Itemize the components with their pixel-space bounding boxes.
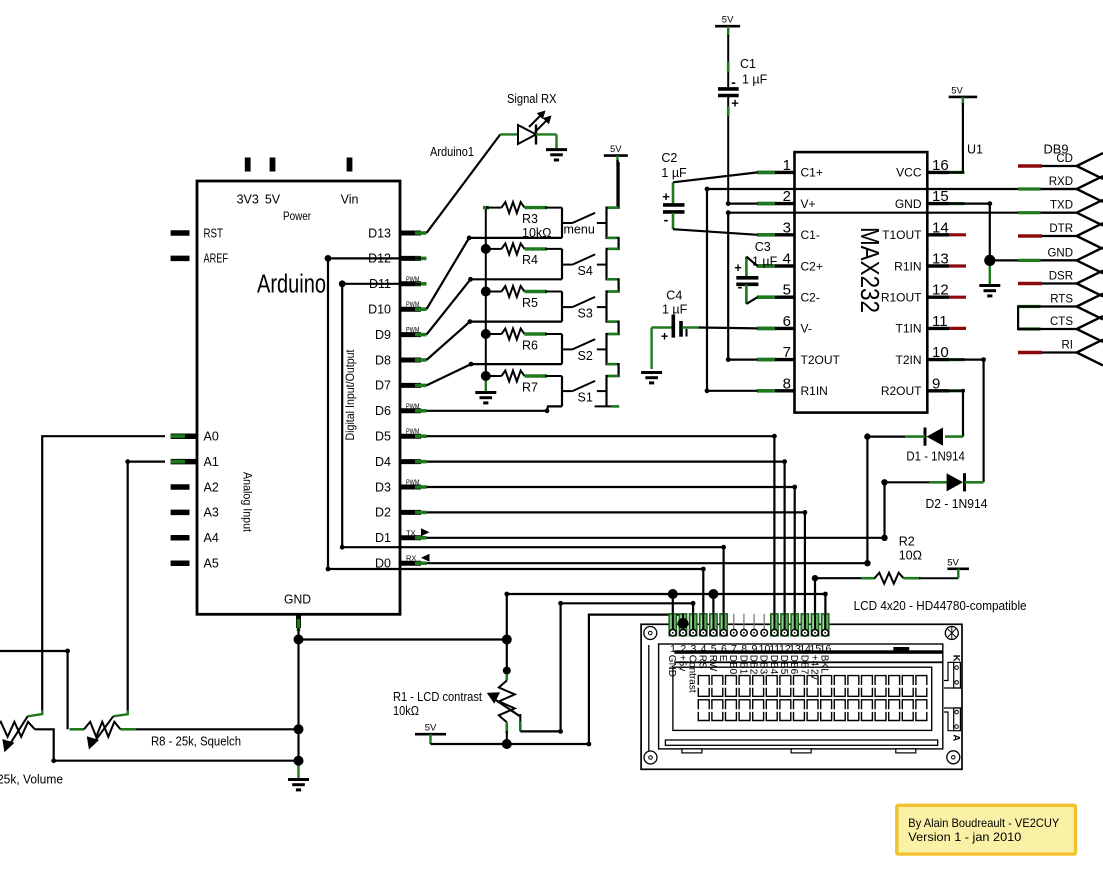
svg-text:A4: A4 <box>204 531 219 545</box>
svg-text:AREF: AREF <box>204 252 229 266</box>
svg-text:5V: 5V <box>610 144 622 155</box>
svg-text:Power: Power <box>283 209 311 223</box>
wire D10 to R3/menu node <box>427 238 563 309</box>
wire down to LCD pin5 <box>712 594 714 627</box>
MAX232 pin 4 C2+ <box>757 264 795 267</box>
wire R1 top to LCD GND line <box>506 594 508 676</box>
svg-text:V-: V- <box>801 322 812 336</box>
svg-text:-: - <box>664 212 669 228</box>
svg-text:13: 13 <box>932 251 949 268</box>
pin D12 green tip <box>415 257 427 261</box>
5V supply symbol for C1 <box>715 15 740 36</box>
DB9 pin GND <box>1041 248 1103 274</box>
svg-text:CD: CD <box>1056 153 1073 165</box>
MAX232 pin 15 GND <box>927 202 949 205</box>
svg-text:Signal RX: Signal RX <box>507 92 557 106</box>
svg-text:5V: 5V <box>947 557 959 568</box>
pin D11 green tip <box>415 282 427 286</box>
MAX232 pin 1 C1+ <box>757 171 795 174</box>
svg-text:T1IN: T1IN <box>895 322 921 336</box>
switch S2 <box>562 339 607 349</box>
wire volume pot right to GND bus <box>35 729 299 760</box>
wire GND line to LCD pins 1,5,16 <box>507 594 826 627</box>
svg-text:1 µF: 1 µF <box>742 73 768 87</box>
MAX232 pin 7 T2OUT <box>757 358 795 361</box>
svg-text:8: 8 <box>741 643 747 655</box>
MAX232 pin 10 T2IN <box>927 358 949 361</box>
svg-text:GND: GND <box>666 655 677 677</box>
wire 5V rail (zig-zag bus feeding switches) <box>616 160 618 208</box>
pin A0 green tip <box>171 434 185 438</box>
svg-text:16: 16 <box>820 643 832 655</box>
green stem to ground <box>485 376 487 393</box>
svg-text:DB6: DB6 <box>788 655 799 675</box>
pin D0 green tip <box>415 561 427 565</box>
LCD pin 5 RW header <box>710 614 717 636</box>
svg-text:+: + <box>731 96 739 111</box>
wire R6 right side U-path <box>561 334 563 364</box>
pin A1 green tip <box>171 460 185 464</box>
junction on LCD pin2 <box>678 618 689 629</box>
svg-text:DB3: DB3 <box>758 655 769 675</box>
svg-text:11: 11 <box>932 313 948 330</box>
Arduino pin D1 stub <box>400 535 421 540</box>
junction GND wire <box>294 635 304 645</box>
wires into LCD headers <box>672 614 674 630</box>
capacitor C3 1uF <box>734 257 758 304</box>
svg-text:S1: S1 <box>578 391 593 405</box>
Arduino pin D7 stub <box>400 383 421 388</box>
svg-text:6: 6 <box>721 643 727 655</box>
svg-text:CTS: CTS <box>1050 316 1073 328</box>
svg-text:1 µF: 1 µF <box>752 255 778 269</box>
note box author <box>897 805 1076 854</box>
svg-text:1: 1 <box>783 157 791 174</box>
LCD pin 8 DB1 header <box>743 614 745 629</box>
svg-text:R4: R4 <box>522 253 538 267</box>
LCD pin 7 DB0 header <box>733 614 735 629</box>
MAX232 pin 11 T1IN <box>927 327 949 330</box>
svg-text:D8: D8 <box>375 353 391 367</box>
wire R1 wiper to LCD Contrast pin <box>520 603 693 731</box>
Arduino pin AREF stub <box>171 256 190 262</box>
svg-text:Contrast: Contrast <box>687 655 698 693</box>
svg-text:D2: D2 <box>375 506 391 520</box>
wire LCD +4.2v pin15 to R2 <box>815 578 861 627</box>
svg-text:1: 1 <box>670 643 676 655</box>
GND stub green tip <box>297 619 301 631</box>
wire C3 bottom to pin5 C2- <box>746 297 757 304</box>
svg-text:5V: 5V <box>951 85 963 96</box>
LCD left frame line <box>648 645 650 761</box>
svg-text:A: A <box>951 734 962 741</box>
LCD feet tabs <box>682 749 702 753</box>
potentiometer R8 25k Squelch <box>70 716 121 749</box>
svg-text:RTS: RTS <box>1050 294 1073 306</box>
Arduino pin D10 stub <box>400 307 421 312</box>
wire pin9 R2OUT to diode D1 <box>949 391 963 437</box>
svg-text:GND: GND <box>284 593 311 607</box>
capacitor C1 1uF <box>718 35 739 204</box>
svg-text:DTR: DTR <box>1049 223 1073 235</box>
pin D4 green tip <box>415 460 427 464</box>
svg-text:S4: S4 <box>578 264 593 278</box>
svg-text:RS: RS <box>697 655 708 669</box>
diode D2 1N914 <box>929 473 984 491</box>
Arduino pin A3 stub <box>171 510 190 516</box>
DB9 pin CTS <box>1018 316 1103 342</box>
LCD LCD1 module board <box>641 624 962 769</box>
Arduino pin D8 stub <box>400 358 421 363</box>
svg-text:T2IN: T2IN <box>895 353 921 367</box>
wire C4 to pin6 V- <box>699 326 758 329</box>
Arduino pin D5 stub <box>400 434 421 439</box>
op-amp / IC U1 MAX232 body <box>795 152 928 413</box>
svg-text:D1 - 1N914: D1 - 1N914 <box>906 450 965 464</box>
wire down to LCD pin1 <box>672 594 674 627</box>
switch S3 <box>562 297 607 307</box>
pin D6 green tip <box>415 409 427 413</box>
wire D1/TX to diode D2 <box>427 482 930 538</box>
Arduino pin D2 stub <box>400 510 421 515</box>
svg-text:C1-: C1- <box>801 228 820 242</box>
junction DB9 GND <box>984 255 995 266</box>
svg-text:DSR: DSR <box>1049 271 1073 283</box>
DB9 pin DSR <box>1018 271 1103 297</box>
svg-text:T1OUT: T1OUT <box>882 228 922 242</box>
Arduino pin D3 stub <box>400 485 421 490</box>
LCD inner bezel <box>659 644 943 749</box>
LCD second bar <box>674 661 942 663</box>
wire C2 bottom to pin3 C1- <box>673 229 758 235</box>
LCD pin 9 DB2 header <box>753 614 755 629</box>
switch S1 <box>562 381 607 391</box>
wire D3 to LCD DB6 <box>427 487 795 627</box>
switch S4 <box>562 254 607 264</box>
wire D9 to R4/S4 node <box>427 279 563 334</box>
wire TXD to pin7 T2OUT <box>728 213 1076 360</box>
LED D3 Signal RX <box>500 111 556 150</box>
svg-text:PWM: PWM <box>406 401 420 410</box>
svg-text:TXD: TXD <box>1050 200 1073 212</box>
MAX232 pin 8 R1IN <box>757 389 795 392</box>
ground for Arduino GND <box>288 780 309 790</box>
svg-text:2: 2 <box>680 643 686 655</box>
junction column-R7 <box>481 371 491 381</box>
LCD top bar <box>674 650 942 654</box>
svg-text:Arduino1: Arduino1 <box>430 145 474 159</box>
svg-text:4: 4 <box>783 251 791 268</box>
junction volume-GND <box>294 756 304 766</box>
svg-text:A5: A5 <box>204 557 219 571</box>
svg-text:V+: V+ <box>801 197 816 211</box>
svg-text:DB2: DB2 <box>748 655 759 675</box>
Arduino pin A1 stub <box>171 459 197 465</box>
svg-text:9: 9 <box>932 375 940 392</box>
wire C3 top to pin4 C2+ <box>746 257 757 266</box>
svg-text:BKL: BKL <box>819 655 830 674</box>
svg-text:S3: S3 <box>578 307 593 321</box>
Arduino pin D11 stub <box>400 281 421 286</box>
resistor R3 <box>483 202 562 213</box>
Arduino pin D0 stub <box>400 561 421 566</box>
wire GND to R1 junction <box>299 638 507 640</box>
svg-text:15: 15 <box>932 188 949 205</box>
pin D10 green tip <box>415 307 427 311</box>
svg-text:C2: C2 <box>661 151 677 165</box>
wire R3 right side U-path <box>561 208 563 238</box>
svg-text:3V3: 3V3 <box>237 193 259 207</box>
svg-text:D4: D4 <box>375 455 391 469</box>
MAX232 pin 13 R1IN <box>927 264 949 267</box>
wire A0 to volume pot wiper <box>42 436 165 714</box>
RX arrow marker <box>421 554 430 562</box>
MAX232 pin 9 R2OUT <box>927 389 949 392</box>
svg-text:R1OUT: R1OUT <box>881 291 922 305</box>
rail main path <box>607 162 619 406</box>
svg-text:A0: A0 <box>204 430 219 444</box>
svg-text:C3: C3 <box>755 240 771 254</box>
MAX232 pin 3 C1- <box>757 233 795 236</box>
MAX232 pin 2 V+ <box>757 202 795 205</box>
svg-text:5V: 5V <box>265 193 281 207</box>
svg-text:D7: D7 <box>375 379 391 393</box>
svg-text:1 µF: 1 µF <box>661 166 687 180</box>
svg-text:R7: R7 <box>522 380 538 394</box>
Arduino pin 5V stub <box>270 158 276 172</box>
svg-text:DB1: DB1 <box>737 655 748 675</box>
wire D11 to LCD E <box>342 284 723 627</box>
wire D13 to LED <box>427 134 501 233</box>
ground for resistor network <box>475 393 496 403</box>
svg-text:By Alain Boudreault - VE2CUY: By Alain Boudreault - VE2CUY <box>908 816 1059 830</box>
svg-text:-: - <box>731 74 736 90</box>
svg-text:VCC: VCC <box>896 166 922 180</box>
svg-text:RW: RW <box>707 655 718 672</box>
LCD screw holes <box>644 627 657 640</box>
LCD pin 2 +5v header <box>679 614 686 636</box>
junction squelch-GND <box>294 724 304 734</box>
wire RXD to pin8 R1IN <box>707 189 1077 391</box>
svg-text:E: E <box>717 655 728 662</box>
resistor R5 <box>483 286 562 297</box>
svg-text:PWM: PWM <box>406 478 420 487</box>
MAX232 pin 12 R1OUT <box>927 296 949 299</box>
LCD pin 15 +4.2v header <box>811 614 818 636</box>
wire R4 right side U-path <box>561 249 563 279</box>
svg-text:GND: GND <box>1047 247 1073 259</box>
svg-text:R1 - LCD contrast: R1 - LCD contrast <box>393 690 482 704</box>
wire C1 to V+ pin 2 <box>728 203 757 205</box>
svg-text:Digital Input/Output: Digital Input/Output <box>343 349 357 441</box>
svg-text:5V: 5V <box>425 723 437 734</box>
junction column-R5 <box>481 287 491 297</box>
svg-text:A3: A3 <box>204 506 219 520</box>
svg-text:GND: GND <box>895 197 922 211</box>
svg-text:D2 - 1N914: D2 - 1N914 <box>926 497 988 511</box>
svg-text:+5v: +5v <box>676 655 687 671</box>
svg-text:+: + <box>662 189 670 204</box>
junction column-R6 <box>481 329 491 339</box>
LCD pin 3 Contrast header <box>689 614 696 636</box>
MAX232 pin 14 T1OUT <box>927 233 949 236</box>
LCD backlight A connector <box>954 708 961 731</box>
svg-text:R2OUT: R2OUT <box>881 384 922 398</box>
svg-text:menu: menu <box>564 223 595 237</box>
wire pin10 T2IN to diode D2 <box>949 360 984 483</box>
pin D5 green tip <box>415 434 427 438</box>
junction 5V-R1 bottom <box>502 739 512 749</box>
svg-text:9: 9 <box>751 643 757 655</box>
svg-text:+: + <box>661 329 669 344</box>
svg-text:C4: C4 <box>666 289 682 303</box>
5V supply symbol for VCC <box>949 85 978 105</box>
svg-text:DB4: DB4 <box>768 655 779 675</box>
svg-text:+: + <box>734 260 742 275</box>
LCD pin 16 BKL header <box>822 614 829 636</box>
svg-text:R6: R6 <box>522 338 538 352</box>
wire Arduino GND down to ground <box>297 628 299 762</box>
wire D4 to LCD DB5 <box>427 462 785 627</box>
svg-text:C2-: C2- <box>801 291 820 305</box>
wire D8 to R5/S3 node <box>427 322 563 360</box>
svg-text:A2: A2 <box>204 480 219 494</box>
pin D7 green tip <box>415 384 427 388</box>
resistor R6 <box>483 329 562 340</box>
svg-text:D1: D1 <box>375 531 391 545</box>
LCD pin 11 DB4 header <box>771 614 778 636</box>
resistor R7 <box>483 371 562 382</box>
Arduino pin D4 stub <box>400 459 421 464</box>
svg-text:25k, Volume: 25k, Volume <box>0 773 63 787</box>
LCD display window <box>673 667 932 730</box>
junction R1-GND wire <box>502 635 512 645</box>
svg-text:R5: R5 <box>522 296 538 310</box>
svg-text:7: 7 <box>783 344 791 361</box>
svg-text:S2: S2 <box>578 349 593 363</box>
svg-text:R3: R3 <box>522 212 538 226</box>
svg-text:2: 2 <box>783 188 791 205</box>
junction column-R4 <box>481 244 491 254</box>
svg-text:10kΩ: 10kΩ <box>393 704 419 718</box>
LCD pin 1 GND header <box>669 614 676 636</box>
svg-text:Analog Input: Analog Input <box>241 472 255 533</box>
svg-text:10: 10 <box>932 344 949 361</box>
Arduino pin A4 stub <box>171 535 190 541</box>
5V supply symbol for LCD <box>415 723 446 744</box>
potentiometer R1 LCD contrast <box>487 674 521 744</box>
Arduino pin D12 stub <box>400 256 421 261</box>
svg-text:-: - <box>738 279 743 295</box>
svg-text:C1: C1 <box>740 57 756 71</box>
capacitor C4 1uF <box>652 315 701 369</box>
resistor R4 <box>483 243 562 254</box>
Arduino pin A2 stub <box>171 484 190 490</box>
wire D12 to LCD RS <box>328 258 703 627</box>
svg-text:PWM: PWM <box>406 325 420 334</box>
svg-text:LCD 4x20 - HD44780-compatible: LCD 4x20 - HD44780-compatible <box>854 599 1027 613</box>
svg-text:RI: RI <box>1062 340 1074 352</box>
MAX232 pin 16 VCC <box>927 171 949 174</box>
svg-text:T2OUT: T2OUT <box>801 353 841 367</box>
TX arrow marker <box>421 528 430 536</box>
svg-text:14: 14 <box>932 219 949 236</box>
resistor network column (ground bus) <box>485 208 487 376</box>
Arduino pin D9 stub <box>400 332 421 337</box>
Arduino U2 main board outline <box>197 181 400 614</box>
svg-text:RXD: RXD <box>1049 176 1073 188</box>
LCD backlight K connector <box>954 662 961 688</box>
wire D7 to R6/S2 node <box>427 364 563 385</box>
pin D2 green tip <box>415 511 427 515</box>
LCD bottom bar <box>665 740 937 745</box>
svg-text:4: 4 <box>701 643 707 655</box>
svg-text:D13: D13 <box>368 226 391 240</box>
svg-text:6: 6 <box>783 313 791 330</box>
svg-text:R8 - 25k, Squelch: R8 - 25k, Squelch <box>151 735 241 749</box>
LCD pin 14 DB7 header <box>801 614 808 636</box>
svg-text:D3: D3 <box>375 480 391 494</box>
LCD pin 10 DB3 header <box>763 614 765 629</box>
DB9 pin TXD <box>1018 200 1103 226</box>
wire R7 right side U-path <box>561 376 563 406</box>
rail bottom end <box>595 405 620 407</box>
svg-text:D10: D10 <box>368 303 391 317</box>
Arduino pin RST stub <box>171 230 190 236</box>
svg-text:R1IN: R1IN <box>801 384 828 398</box>
5V supply symbol for R2 <box>947 557 969 578</box>
junction LCD pin5 RW-GND <box>708 589 718 599</box>
DB9 pin DTR <box>1018 223 1103 249</box>
wire D6 to R7/S1 node <box>427 406 563 410</box>
diode D1 1N914 <box>905 428 963 446</box>
pin D8 green tip <box>415 358 427 362</box>
svg-text:U1: U1 <box>967 143 983 157</box>
wire D2 to LCD DB7 <box>427 512 805 627</box>
svg-text:5V: 5V <box>722 15 734 26</box>
svg-text:PWM: PWM <box>406 274 420 283</box>
svg-text:8: 8 <box>783 375 791 392</box>
svg-text:3: 3 <box>783 219 791 236</box>
wire VCC pin16 to 5V <box>949 103 963 172</box>
svg-text:C2+: C2+ <box>801 259 823 273</box>
LCD character cells <box>698 676 927 721</box>
svg-text:12: 12 <box>932 282 949 299</box>
svg-text:7: 7 <box>731 643 737 655</box>
svg-text:10Ω: 10Ω <box>899 549 922 563</box>
pin D13 green tip <box>415 231 427 235</box>
DB9 pin CD <box>1018 153 1103 179</box>
wire RTS to CTS loop <box>1018 307 1040 330</box>
Arduino pin D13 stub <box>400 231 421 236</box>
ground for C4 <box>641 373 662 383</box>
wire D0/RX to diode D1 <box>427 437 906 564</box>
svg-text:R2: R2 <box>899 535 915 549</box>
svg-text:TX: TX <box>406 528 416 537</box>
Arduino GND stub <box>296 614 301 628</box>
DB9 pin RI <box>1018 340 1103 366</box>
wire squelch pot left to off-canvas <box>0 651 68 729</box>
MAX232 pin 5 C2- <box>757 296 795 299</box>
5V supply symbol for switches <box>604 144 628 166</box>
svg-text:D5: D5 <box>375 430 391 444</box>
svg-text:D9: D9 <box>375 328 391 342</box>
LCD pin 6 E header <box>720 614 727 636</box>
svg-text:+4.2v: +4.2v <box>808 655 819 680</box>
Arduino pin A5 stub <box>171 560 190 566</box>
wire R5 right side U-path <box>561 292 563 322</box>
svg-text:5: 5 <box>711 643 717 655</box>
